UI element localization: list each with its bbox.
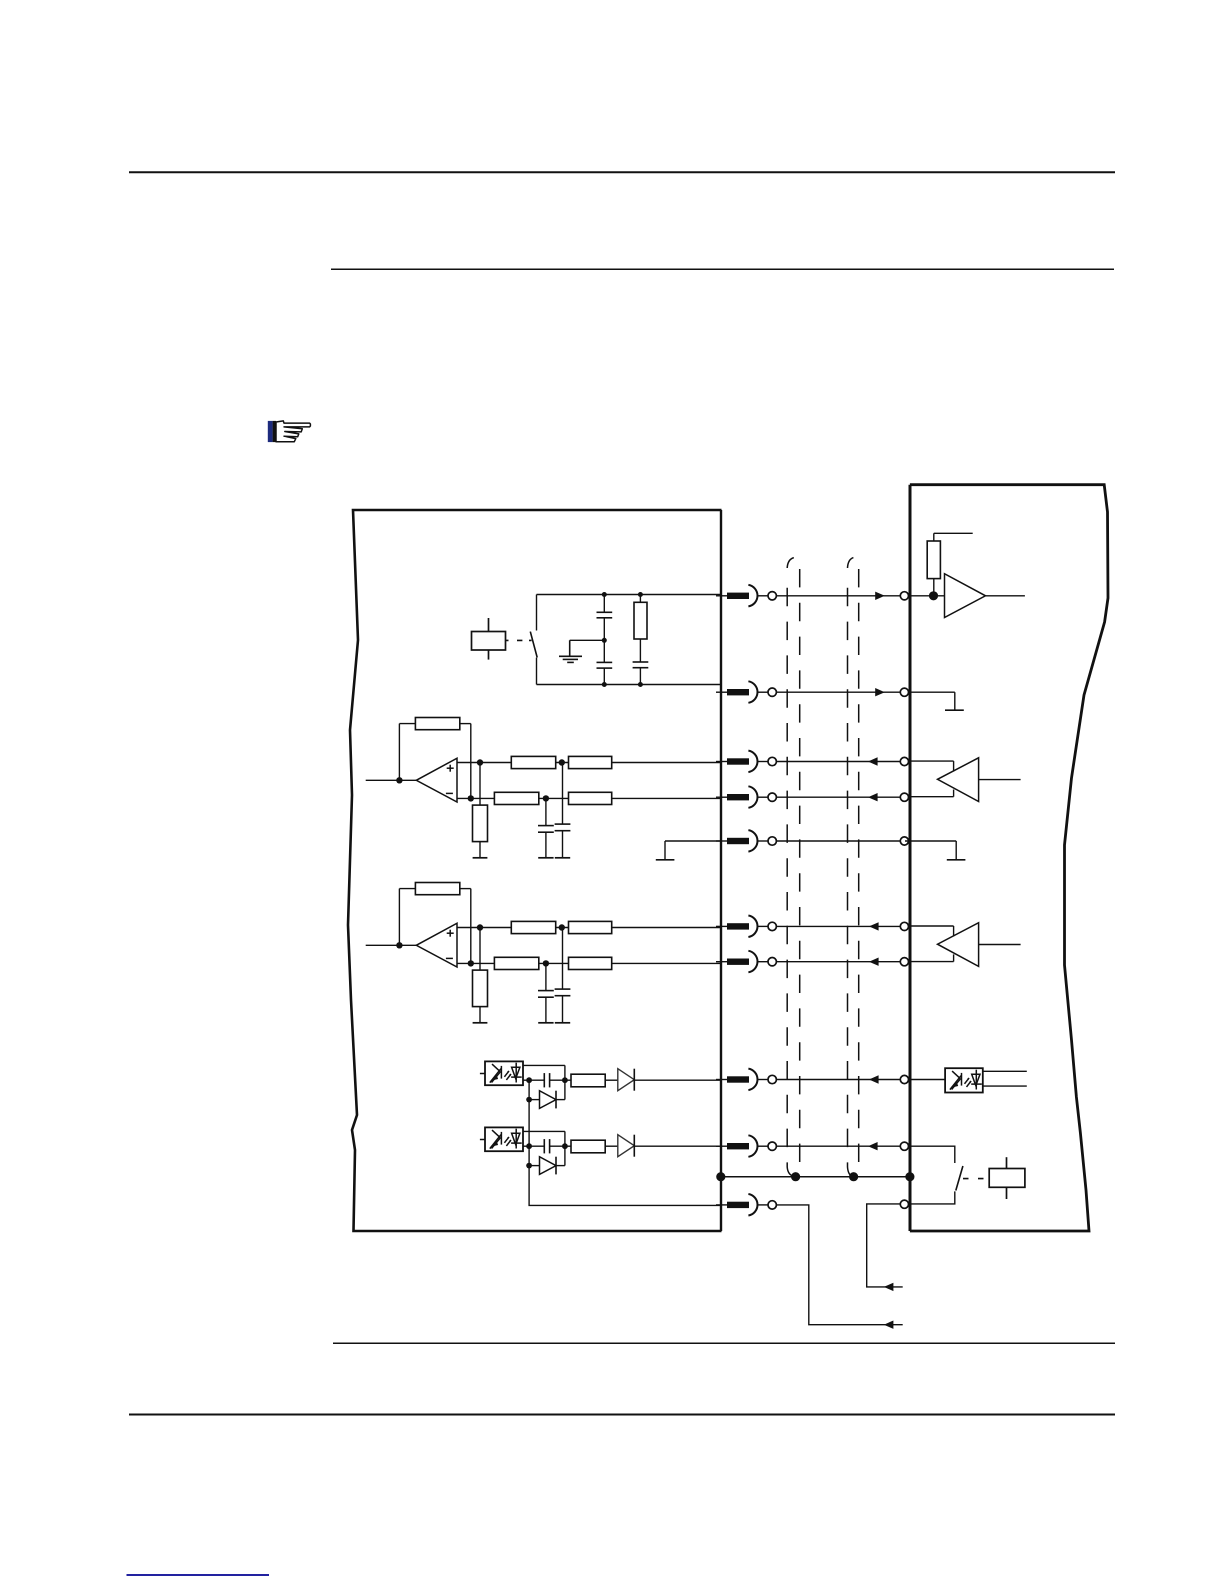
wire: row5 to left ground	[665, 840, 722, 842]
node: pull-up / buffer input	[929, 591, 938, 600]
node: C1-C2 / ground junction	[602, 638, 607, 643]
dashed actuation link (right box)	[963, 1178, 984, 1180]
wire row 8	[776, 1079, 905, 1081]
arrow row 9	[868, 1142, 878, 1150]
arrow on right box lead	[884, 1283, 894, 1291]
wire: relay loop top	[537, 594, 722, 596]
connector pin 7	[716, 951, 776, 973]
right box interface edge	[909, 485, 912, 1231]
capacitor C1	[597, 595, 613, 641]
node: screen bus at interface	[716, 1172, 725, 1181]
note hand icon	[268, 421, 311, 442]
wire row 3	[776, 761, 905, 763]
left box interface edge	[720, 510, 722, 1231]
dashed actuation link	[506, 639, 532, 641]
wire row 9	[776, 1145, 905, 1147]
wire row 6	[776, 925, 905, 927]
screen line A bottom arc	[787, 1167, 795, 1177]
screen line C top arc	[848, 558, 854, 568]
op-amp U2 section	[366, 883, 722, 1023]
screen line C dashes	[847, 575, 849, 1167]
terminal circle row 8	[900, 1075, 908, 1083]
screen line C bottom arc	[848, 1167, 854, 1177]
terminal circle row 3	[900, 757, 908, 765]
screen bus wire	[720, 1176, 910, 1178]
connector pin 10	[716, 1194, 776, 1216]
terminal circle row 4	[900, 793, 908, 801]
left device box outline	[348, 510, 722, 1231]
wire: switch to pin10 (right box)	[909, 1191, 955, 1204]
connector pin 3	[716, 751, 776, 773]
node: screen bus / line A	[791, 1172, 800, 1181]
connector pin 9	[716, 1135, 776, 1157]
wire: opto common rail	[529, 1080, 721, 1205]
capacitor C2	[597, 640, 613, 684]
arrow row 8	[869, 1075, 879, 1083]
node: screen bus at right box	[905, 1172, 914, 1181]
ground (left box, row5)	[656, 841, 675, 860]
terminal circle row 9	[900, 1142, 908, 1150]
wire: ground branch	[570, 639, 605, 641]
wire: pin9 to switch (right box)	[909, 1146, 955, 1163]
caption rule	[333, 1342, 1115, 1344]
arrow row 2	[875, 688, 885, 696]
terminal circle row 6	[900, 922, 908, 930]
arrow row 7	[869, 958, 879, 966]
footer rule	[129, 1414, 1115, 1416]
ground (left box, relay section)	[559, 640, 582, 662]
connector pin 1	[716, 585, 776, 607]
wire: relay loop bottom	[537, 684, 722, 686]
arrow row 3	[868, 757, 878, 765]
terminal circle row 10 (right box)	[900, 1200, 908, 1208]
ground (right box, row5)	[947, 841, 966, 860]
wire row 4	[776, 796, 905, 798]
receiver gate (right box, pins 6/7)	[909, 923, 1021, 967]
wire row 2	[776, 691, 905, 693]
ground (right box, pin2)	[909, 692, 964, 710]
terminal circle row 7	[900, 958, 908, 966]
connector pin 4	[716, 786, 776, 808]
node: relay bottom / C2 junction	[602, 682, 607, 687]
buffer gate (right box)	[945, 574, 986, 618]
wire: row5 to right ground	[905, 840, 956, 842]
connector pin 5	[716, 830, 776, 852]
relay coil K1	[472, 618, 506, 660]
optocoupler OC2 row	[480, 1127, 722, 1174]
wire row 1 (to right box)	[776, 595, 905, 597]
connector pin 8	[716, 1069, 776, 1091]
connector pin 6	[716, 916, 776, 938]
screen line B dashes	[799, 569, 801, 1163]
wire: pin10 external lead	[776, 1205, 902, 1325]
receiver gate (right box, pins 3/4)	[909, 758, 1021, 802]
section heading rule	[331, 268, 1114, 270]
optocoupler OC1 row	[480, 1061, 722, 1108]
wire row 7	[776, 961, 905, 963]
terminal circle row 1	[900, 592, 908, 600]
arrow on pin10 lead	[884, 1321, 894, 1329]
node: relay top / R1 junction	[638, 592, 643, 597]
screen line D dashes	[858, 569, 860, 1163]
arrow row 1	[875, 592, 885, 600]
node: relay top / C1 junction	[602, 592, 607, 597]
arrow row 6	[869, 922, 879, 930]
screen line A dashes	[786, 575, 788, 1167]
arrow row 4	[868, 793, 878, 801]
footnote rule (blue)	[127, 1574, 270, 1576]
op-amp U1 section	[366, 718, 722, 858]
resistor R1 with series capacitor C3	[633, 595, 649, 685]
terminal circle row 5	[900, 837, 908, 845]
node: relay bottom / C3 junction	[638, 682, 643, 687]
connector pin 2	[716, 681, 776, 703]
right device box outline	[910, 485, 1108, 1231]
wire: pin1 to buffer	[909, 595, 945, 597]
node: screen bus / line C	[849, 1172, 858, 1181]
wire row 5 (screen, no arrow)	[776, 840, 905, 842]
optocoupler internals (right box)	[950, 1070, 982, 1090]
wire: right box pin10 external lead	[867, 1204, 903, 1287]
switch S1	[530, 595, 537, 685]
wire: buffer output	[986, 595, 1025, 597]
terminal circle row 2	[900, 688, 908, 696]
switch S2 (right box)	[956, 1166, 963, 1191]
relay coil K2 (right box)	[989, 1157, 1025, 1199]
pull-up resistor (right box)	[927, 533, 973, 596]
optocoupler (right box, pin 8)	[909, 1068, 1027, 1092]
screen line A top arc	[787, 558, 794, 568]
header rule	[129, 171, 1115, 173]
